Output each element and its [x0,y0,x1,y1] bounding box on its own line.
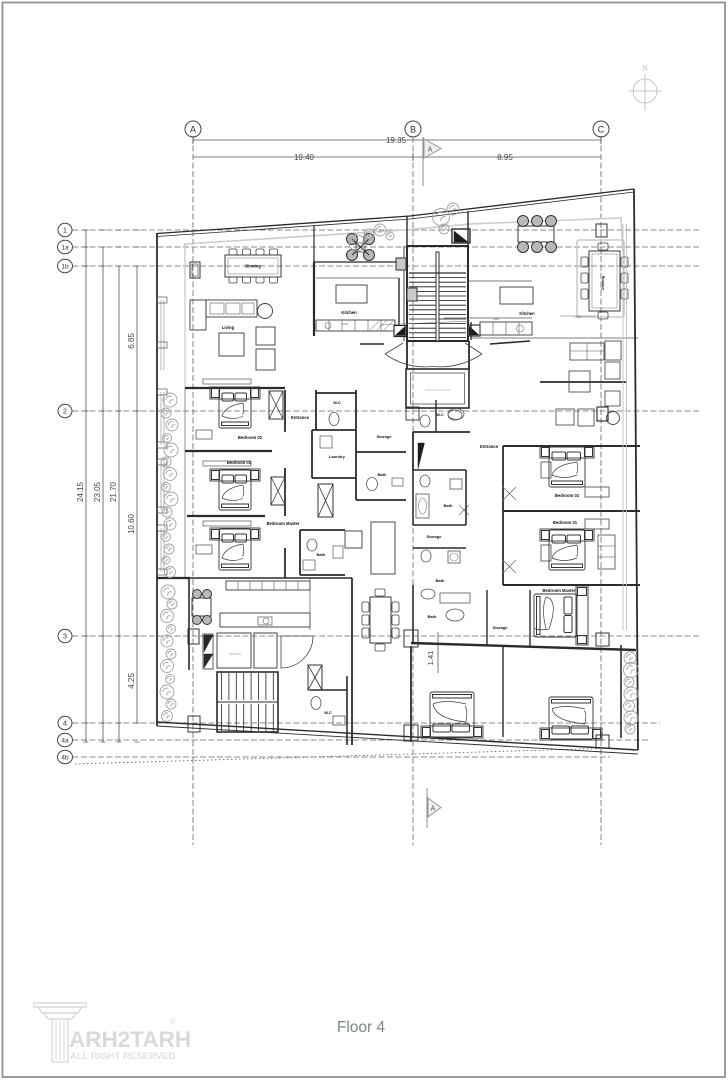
wall east bedrooms west side [502,446,504,585]
dimension 1.41 [437,632,439,673]
svg-text:19.35: 19.35 [386,136,407,145]
svg-text:4.50: 4.50 [575,315,581,319]
grid bubble 1 [58,223,72,236]
svg-text:Floor 4: Floor 4 [337,1019,386,1036]
svg-text:N: N [642,64,648,73]
wall below entrance (bed02 top) [185,387,285,389]
building exterior wall: top edge [157,189,634,234]
property dotted line [75,748,615,764]
svg-text:Entrance: Entrance [291,415,310,420]
closet hall 1 [269,391,283,419]
east kitchen counter line [470,322,472,340]
round side table [258,304,273,319]
svg-text:ARH2TARH: ARH2TARH [69,1027,191,1052]
svg-text:A: A [431,806,436,813]
coffee table [219,333,244,356]
grid bubble B [405,121,421,137]
svg-text:Bath: Bath [378,472,387,477]
wall east bed02/bed01 [503,510,640,512]
west kitchen island [336,285,367,303]
east living wall [540,381,626,383]
armchair 2 [256,349,275,370]
outdoor X table [347,234,358,245]
stair center divider [436,252,439,341]
svg-text:Bedroom 02: Bedroom 02 [238,435,263,440]
svg-text:Kitchen: Kitchen [341,310,357,315]
center south dining table [370,597,391,643]
east living sofa [570,343,604,360]
east dinning chairs [581,257,588,267]
svg-text:ALL RIGHT RESERVED: ALL RIGHT RESERVED [70,1051,175,1062]
bed west bedroom 01 [210,469,260,510]
svg-text:Bath: Bath [444,503,453,508]
east low seats [556,409,574,425]
door swing V east bedroom 01 [503,560,516,573]
bath east walls [413,469,466,471]
west unit south: kitchen counters [226,581,310,590]
svg-text:Bath: Bath [317,552,326,557]
dimension 10.60 [136,411,138,636]
bed east bedroom 01 [540,529,594,570]
svg-text:24.15: 24.15 [76,481,85,502]
stair treads top flight right [439,272,466,274]
grid bubble C [593,121,609,137]
closet hall 3 [318,484,333,517]
counter end box west (black triangle) [394,326,406,337]
grid bubble 1b [58,259,73,272]
east living seat column [605,362,620,379]
grid line y=411 [73,410,701,412]
building exterior wall: left wall [156,233,158,726]
west unit inner north wall [184,244,186,295]
svg-text:Bath: Bath [428,614,437,619]
svg-text:Dinning: Dinning [245,264,261,269]
svg-text:Bedroom 01: Bedroom 01 [553,520,578,525]
bed west master [210,528,260,570]
svg-text:8.95: 8.95 [497,153,513,162]
dimension 10.40 [193,156,413,158]
wall bed01/master [187,515,265,517]
svg-text:6.85: 6.85 [127,333,136,349]
elevator 2 [217,633,251,668]
door arcs south hall [281,636,313,668]
window band left wall (bedroom01) [160,462,162,510]
svg-text:4b: 4b [61,755,69,762]
grid line y=266 [73,265,701,267]
elevator top [406,369,469,408]
east kitchen top line [468,280,532,282]
terrace glass east dining [577,240,624,317]
grid bubble 3 [58,629,72,642]
armchair 1 [256,327,275,345]
west kitchen counter [316,320,395,331]
stairwell upper block walls [406,216,408,246]
svg-text:10.60: 10.60 [127,513,136,534]
building exterior wall: bottom edge [157,722,638,750]
svg-text:Storage: Storage [493,625,509,630]
grid line y=723 [73,722,661,724]
section marker A bottom [426,788,428,828]
wall master bottom / west unit south [157,577,190,579]
svg-text:4.25: 4.25 [127,673,136,689]
east coffee table [569,371,590,392]
svg-text:1: 1 [63,226,67,235]
sofa arm left [190,300,206,330]
counter end box east (black triangle) [468,325,480,336]
wardrobe marks [196,430,212,439]
section marker A top [422,137,424,186]
dinning table west [225,255,281,277]
trees terrace cluster 2 [433,209,450,226]
grid bubble 1a [58,240,73,253]
core walls around elevator [406,341,408,369]
bed south west [421,692,483,738]
svg-text:3: 3 [63,632,67,641]
svg-text:1.00: 1.00 [342,322,348,326]
west south table 4 chairs [192,598,211,616]
window band left wall (living) [160,300,162,370]
svg-text:21.70: 21.70 [109,481,118,502]
grid bubble 2 [58,404,72,417]
svg-text:Bath: Bath [436,578,445,583]
wall west south area [190,577,352,579]
kitchen west right wall [398,278,400,331]
dimension 8.95 [413,156,601,158]
grid line y=757 [73,756,611,758]
svg-text:1.41: 1.41 [426,651,435,666]
west unit west interior line (light upper) [184,244,186,388]
sofa west living [206,300,257,317]
column grid C terrace [596,224,607,237]
svg-text:Laundry: Laundry [329,454,346,459]
washing machine by elevator [448,409,464,420]
column grid A x 1b [190,262,200,278]
corridor wall west x285 [284,390,286,432]
grid bubble 4b [58,750,73,763]
svg-text:C: C [598,125,605,135]
svg-text:A: A [190,125,196,135]
dimension 21.70 [118,266,120,742]
dimension 23.05 [102,247,104,742]
svg-text:®: ® [170,1017,176,1026]
building exterior wall: right wall [634,189,638,750]
svg-text:W.C: W.C [324,710,332,715]
trees left column [163,393,177,407]
stair treads top flight left [409,272,436,274]
wall north of east bed02 [503,445,640,447]
grid bubble 4a [58,733,73,746]
column grid A x3 [188,629,199,644]
bed west bedroom 02 [210,387,260,428]
kitchen west top wall [314,261,399,263]
south main wall [411,643,636,650]
grid line y=636 [73,635,701,637]
svg-text:Entrance: Entrance [480,444,499,449]
svg-text:2: 2 [63,407,67,416]
dimension 6.85 [136,266,138,411]
svg-text:Kitchen: Kitchen [519,311,535,316]
dimension 24.15 [85,230,87,742]
svg-text:1a: 1a [61,245,69,252]
east dinning table [589,251,620,311]
svg-text:23.05: 23.05 [93,481,102,502]
stairwell left double wall [403,246,405,341]
dimension 4.25 [136,636,138,723]
svg-text:4: 4 [63,719,67,728]
window sills west [157,297,167,303]
svg-text:A: A [428,147,433,154]
double swing doors below stairs [385,343,403,354]
svg-text:Living: Living [222,325,235,330]
trees bottom right strip [624,652,636,664]
svg-text:Bedroom Master: Bedroom Master [542,588,575,593]
south bedrooms walls [410,646,412,742]
svg-text:Bedroom 02: Bedroom 02 [555,493,580,498]
bed south east [540,697,602,740]
east kitchen island [500,287,533,304]
kitchen/living divider wall [471,337,638,339]
closet south [308,665,322,690]
bed east bedroom 02 [540,446,594,487]
counter hatch [369,320,380,331]
trees terrace cluster 1 [349,235,365,251]
dinning west chairs [229,249,237,255]
svg-text:Dinning: Dinning [601,275,605,290]
window band left wall (master) [160,528,162,572]
window band right wall [622,224,624,630]
svg-text:1b: 1b [61,264,69,271]
terrace table 6 chairs [518,226,554,242]
svg-text:4a: 4a [61,738,69,745]
sofa small room [371,522,395,574]
wall living/kitchen [313,262,315,336]
grid line C vertical [600,137,602,845]
stair landing line [409,272,466,274]
direction triangle box top [452,229,470,243]
east kitchen counter [480,322,532,335]
service walls [315,390,317,430]
column grid B terrace [407,288,417,301]
grid line A vertical [192,137,194,845]
svg-text:W.C: W.C [333,400,341,405]
svg-text:W.C: W.C [436,412,444,417]
stairs south [217,672,278,732]
elevator corner black wedge [418,443,425,469]
west unit west interior line (lower) [184,388,186,578]
east closet niches [585,487,609,497]
svg-text:Bedroom Master: Bedroom Master [266,521,299,526]
terrace parapet light line [184,218,623,252]
stairwell top outer walls [407,246,468,341]
east entrance walls [413,431,470,433]
svg-text:Storage: Storage [377,434,393,439]
grid bubble 4 [58,716,72,729]
bathtub east [416,494,429,518]
grid line B vertical [412,137,414,845]
grid bubble A [185,121,201,137]
svg-text:4.00: 4.00 [493,317,499,321]
elevator 2 flag triangles [203,634,213,669]
door swing V bath east [459,505,469,515]
svg-text:B: B [410,125,416,135]
svg-text:Bedroom 01: Bedroom 01 [227,460,252,465]
grid line y=230 [73,229,701,231]
svg-text:10.40: 10.40 [294,153,315,162]
wall south of east bed01 [503,584,640,586]
wall bed02/bed01 [185,450,272,452]
dimension 19.35 [193,139,601,141]
grid line y=247 [73,246,701,248]
logo column icon [34,1003,86,1062]
column B x south wall [404,630,418,647]
door swing V east bedroom 02 [503,487,516,500]
columns on bottom wall [404,725,418,741]
window band left wall (bedroom02) [160,392,162,445]
east bath south walls [412,585,414,643]
closet hall 2 [271,477,285,505]
svg-text:Storage: Storage [427,534,443,539]
grid line y=740 [73,739,649,741]
wall x314 up to roof [313,226,315,262]
